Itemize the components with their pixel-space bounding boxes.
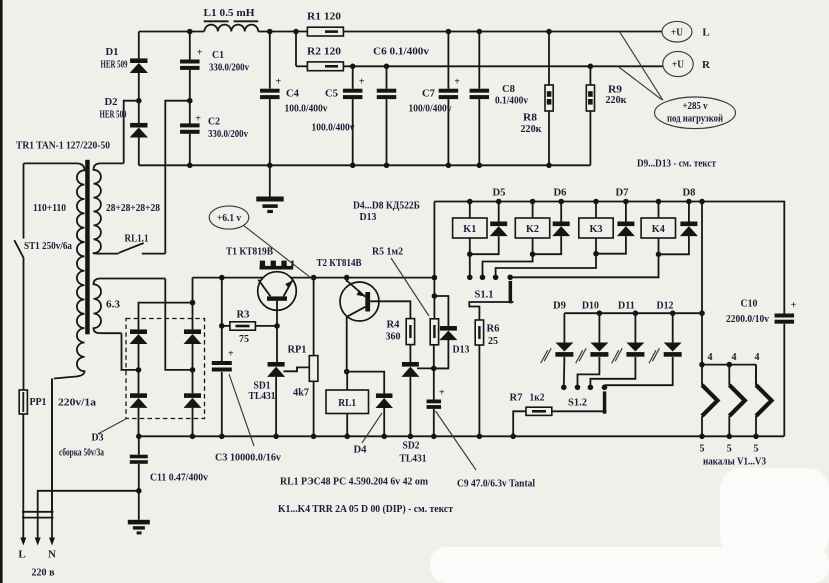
wire C2 to 0V rail <box>189 134 191 166</box>
svg-text:C8: C8 <box>502 83 515 95</box>
svg-text:L: L <box>702 27 709 39</box>
wire D9 return <box>563 357 566 387</box>
node C8 bottom <box>477 163 483 169</box>
wire LED anode bus <box>564 312 702 314</box>
node heater bus V2 <box>727 362 733 368</box>
svg-text:C3 10000.0/16v: C3 10000.0/16v <box>215 452 281 464</box>
node S1.2 contact3 <box>588 385 594 391</box>
svg-text:D4: D4 <box>354 444 367 456</box>
diode D6 <box>560 202 562 222</box>
switch S1.1 wiper <box>509 281 512 303</box>
svg-text:220к: 220к <box>606 94 628 106</box>
svg-text:+: + <box>439 388 445 399</box>
svg-text:HER 509: HER 509 <box>100 110 127 121</box>
node heater bus V1 <box>699 362 705 368</box>
svg-text:D8: D8 <box>683 187 696 199</box>
svg-text:D2: D2 <box>105 96 118 108</box>
svg-text:RP1: RP1 <box>288 344 307 356</box>
node LED bus right <box>699 310 705 316</box>
svg-text:D5: D5 <box>493 187 506 199</box>
node RL1 coil top <box>344 369 350 375</box>
diode D2 HER509 <box>130 123 147 128</box>
svg-text:сборка 50v/3a: сборка 50v/3a <box>59 447 104 459</box>
svg-text:220к: 220к <box>521 123 543 135</box>
wire D2 to 0V rail <box>138 138 140 166</box>
capacitor C5 100.0/400v <box>352 66 354 88</box>
resistor R3 75 <box>222 325 230 327</box>
svg-text:D13: D13 <box>360 211 377 223</box>
node ground tap <box>267 163 273 169</box>
node C4 top <box>267 29 273 35</box>
svg-text:HER 509: HER 509 <box>101 60 128 71</box>
svg-text:+6.1 v: +6.1 v <box>217 213 241 224</box>
node S1.1 contact2 <box>480 275 486 281</box>
node C1 top <box>187 29 193 35</box>
node C7 top <box>446 29 452 35</box>
node T2 emitter <box>344 275 350 281</box>
wire D11 return <box>590 357 635 387</box>
rectifier D3 dashed box <box>126 319 205 419</box>
svg-text:K4: K4 <box>652 223 665 235</box>
wire K3 return <box>595 238 597 254</box>
svg-text:R6: R6 <box>487 323 500 335</box>
svg-text:D12: D12 <box>657 300 674 312</box>
svg-text:R7: R7 <box>510 392 523 404</box>
wire D12 return <box>605 357 673 385</box>
node rail SD2 bottom <box>408 434 414 440</box>
svg-text:330.0/200v: 330.0/200v <box>209 63 249 74</box>
svg-text:C4: C4 <box>286 88 299 100</box>
node rail SD1 bottom <box>273 434 279 440</box>
capacitor C8 0.1/400v <box>478 32 480 89</box>
node bus D5 <box>496 199 502 205</box>
svg-text:+: + <box>228 349 234 360</box>
LED D10 <box>598 313 600 342</box>
node bus D8 <box>686 199 692 205</box>
node rail R6 bottom <box>477 434 483 440</box>
wire SD1 ref to RP1 wiper <box>284 367 310 371</box>
relay coil RL1 <box>346 372 348 390</box>
wire heater bus <box>702 364 756 366</box>
diode D13 <box>434 296 448 326</box>
node C6 bottom <box>384 163 390 169</box>
heater V2 <box>728 365 730 385</box>
svg-text:C10: C10 <box>741 298 758 310</box>
wire top +rail to L output <box>139 31 205 33</box>
svg-text:R5 1м2: R5 1м2 <box>372 246 403 258</box>
svg-text:D9...D13 - см. текст: D9...D13 - см. текст <box>637 158 716 170</box>
node bus K4 <box>656 199 662 205</box>
wire R2 rail (R channel) <box>295 32 297 67</box>
svg-text:220 в: 220 в <box>32 567 55 579</box>
capacitor C11 0.47/400v <box>138 436 140 454</box>
svg-text:4: 4 <box>755 352 760 363</box>
diode D3b <box>130 393 147 398</box>
heatsink T1 <box>260 266 294 270</box>
svg-text:100/0/400v: 100/0/400v <box>409 104 452 115</box>
capacitor C4 100.0/400v <box>269 32 271 89</box>
diode D5 <box>498 202 500 222</box>
svg-text:TL431: TL431 <box>400 453 427 465</box>
node R8 top <box>546 29 552 35</box>
svg-text:RL1 РЭС48 РС 4.590.204 6: RL1 РЭС48 РС 4.590.204 6v 42 om <box>280 476 428 488</box>
svg-text:L: L <box>18 549 25 561</box>
svg-text:PP1: PP1 <box>30 396 47 408</box>
svg-text:RL1.1: RL1.1 <box>125 233 149 245</box>
svg-text:28+28+28+28: 28+28+28+28 <box>106 202 160 214</box>
svg-text:D9: D9 <box>553 300 566 312</box>
winding secondary 6.3 <box>94 279 166 334</box>
svg-text:T2 КТ814В: T2 КТ814В <box>317 257 363 269</box>
svg-text:R2 120: R2 120 <box>307 46 342 58</box>
wire T1 base <box>276 301 278 362</box>
node riser D13 tap <box>432 293 438 299</box>
winding primary 110+110 <box>24 163 85 378</box>
svg-text:D3: D3 <box>92 432 104 444</box>
node rail R7 return <box>510 434 516 440</box>
svg-text:D13: D13 <box>453 344 470 356</box>
node R9 top <box>588 64 594 70</box>
svg-text:100.0/400v: 100.0/400v <box>312 123 355 134</box>
transistor T1 KT819V <box>258 272 297 311</box>
svg-text:S1.1: S1.1 <box>475 289 494 301</box>
wire +6.1 riser to relay bus <box>433 202 435 319</box>
diode D3c <box>184 329 201 334</box>
svg-text:4: 4 <box>732 352 737 363</box>
svg-text:K3: K3 <box>590 223 603 235</box>
svg-text:R: R <box>702 59 711 71</box>
node chassis junction <box>138 464 140 520</box>
svg-text:TL431: TL431 <box>249 390 276 402</box>
resistor R7 1k2 <box>526 407 552 415</box>
node bus D7 <box>623 199 629 205</box>
svg-text:+U: +U <box>671 27 683 38</box>
svg-text:K1: K1 <box>463 223 476 235</box>
mains arrow earth <box>35 538 41 546</box>
wire fuse to plug L <box>22 414 24 538</box>
svg-text:ST1 250v/6a: ST1 250v/6a <box>24 240 72 252</box>
node C8 top <box>477 29 483 35</box>
relay K2 <box>532 202 534 219</box>
wire raw +rail and +6.1 rail <box>193 277 435 279</box>
wire earth to chassis <box>38 491 139 538</box>
svg-text:K2: K2 <box>526 223 539 235</box>
diode D7 <box>625 202 627 222</box>
capacitor C7 100/0/400v <box>447 32 449 89</box>
node rail heater V3 <box>753 434 759 440</box>
node rail heater V1 <box>699 434 705 440</box>
node bridge plus <box>190 300 196 306</box>
svg-text:220v/1a: 220v/1a <box>58 397 97 409</box>
svg-text:D7: D7 <box>616 187 629 199</box>
wire N from primary <box>51 379 53 539</box>
node bus D11 <box>633 310 639 316</box>
wire 0V top rail <box>139 164 591 166</box>
node bus K2 <box>530 199 536 205</box>
svg-text:R1 120: R1 120 <box>307 11 342 23</box>
svg-text:C5: C5 <box>325 88 338 100</box>
svg-text:D1: D1 <box>106 46 119 58</box>
node bridge right mid <box>192 344 194 394</box>
capacitor C1 330.0/200v <box>189 32 191 60</box>
winding secondary 28+28+28+28 <box>94 163 124 253</box>
diode D3a <box>130 329 147 334</box>
LED D9 <box>563 313 565 342</box>
svg-text:100.0/400v: 100.0/400v <box>285 104 328 115</box>
diode D3d <box>184 393 201 398</box>
wire 6.3 top to bridge right midpoint <box>165 279 192 370</box>
resistor R6 25 <box>475 320 483 345</box>
wire heater bus corner V3 <box>755 365 757 385</box>
node rail C11 top <box>136 434 142 440</box>
LED D12 <box>672 313 674 342</box>
diode D8 <box>688 202 690 222</box>
node bus D10 <box>597 310 603 316</box>
callout C3 <box>229 374 254 446</box>
svg-text:+: + <box>791 300 797 311</box>
wire D10 return <box>578 357 600 387</box>
output +U R <box>663 51 693 76</box>
node bus D6 <box>558 199 564 205</box>
resistor R9 220k <box>589 66 591 85</box>
svg-text:4: 4 <box>708 352 713 363</box>
heater V1 <box>701 365 703 385</box>
svg-text:R3: R3 <box>237 309 250 321</box>
node bus D12 <box>670 310 676 316</box>
svg-text:C1: C1 <box>212 49 224 61</box>
svg-text:C7: C7 <box>422 88 435 100</box>
svg-text:360: 360 <box>386 331 401 343</box>
relay contact RL1.1 <box>119 243 144 253</box>
svg-text:R8: R8 <box>523 112 538 124</box>
capacitor C2 330.0/200v <box>180 123 200 127</box>
svg-text:+U: +U <box>672 60 684 71</box>
svg-text:+: + <box>195 114 201 125</box>
wire SD2 ref node <box>417 367 434 369</box>
svg-text:T1 КТ819В: T1 КТ819В <box>226 246 274 258</box>
resistor R4 360 <box>406 319 414 345</box>
svg-text:+: + <box>359 77 365 88</box>
shunt regulator SD1 TL431 <box>268 362 285 367</box>
wire +6.1 riser to LED bus and heaters <box>701 202 703 365</box>
node C2 bottom <box>187 163 193 169</box>
svg-text:R4: R4 <box>387 319 400 331</box>
svg-text:L1 0.5 mH: L1 0.5 mH <box>204 7 255 19</box>
node rail RP1 bottom <box>311 434 317 440</box>
node bus K1 <box>467 199 473 205</box>
svg-text:+: + <box>197 48 203 59</box>
wire main 0V rail <box>139 435 785 437</box>
wire raw vertical <box>221 278 223 361</box>
resistor R1 <box>307 27 343 36</box>
svg-text:5: 5 <box>727 444 732 455</box>
svg-text:D6: D6 <box>554 187 567 199</box>
svg-text:K1...K4 TRR 2A 05 D 00 (DI: K1...K4 TRR 2A 05 D 00 (DIP) - см. текст <box>278 503 454 515</box>
ground symbol top <box>269 165 271 196</box>
wire coil node to D4 <box>347 372 385 394</box>
wire D-junction to secondary top <box>124 101 139 164</box>
svg-text:25: 25 <box>488 335 498 347</box>
node rail C3 bottom <box>219 434 225 440</box>
node bridge left mid <box>138 344 140 394</box>
capacitor C10 2200.0/10v <box>775 314 795 318</box>
svg-text:4k7: 4k7 <box>293 387 309 399</box>
svg-text:2200.0/10v: 2200.0/10v <box>726 314 769 325</box>
wire K4 return <box>658 238 660 254</box>
resistor R2 <box>307 62 343 71</box>
callout +6.1v <box>209 206 249 229</box>
svg-text:+: + <box>454 77 460 88</box>
svg-text:D4...D8 КД522Б: D4...D8 КД522Б <box>353 200 420 212</box>
svg-text:C2: C2 <box>208 116 220 128</box>
callout D4 <box>362 413 382 443</box>
fuse PP1 220v/1a <box>19 390 27 414</box>
potentiometer RP1 4k7 <box>313 278 315 356</box>
mains arrow L <box>20 538 26 546</box>
wire K2 return <box>532 238 534 254</box>
shunt regulator SD2 TL431 <box>402 362 419 367</box>
node R2 tap <box>293 29 299 35</box>
node rail D4 bottom <box>381 434 387 440</box>
relay K4 <box>658 202 660 219</box>
svg-text:C6 0.1/400v: C6 0.1/400v <box>373 46 430 58</box>
wire T2 base to R4 <box>370 301 410 318</box>
relay K3 <box>595 202 597 219</box>
svg-text:C11 0.47/400v: C11 0.47/400v <box>150 472 208 484</box>
heater V3 <box>755 365 757 385</box>
node riser rail <box>432 275 438 281</box>
node R3 left <box>219 323 225 329</box>
svg-text:1к2: 1к2 <box>530 392 545 404</box>
wire S1.2 wiper to R7 <box>552 410 607 412</box>
svg-text:+: + <box>276 77 282 88</box>
resistor R8 220k <box>548 32 550 86</box>
node S1.2 contact1 <box>561 385 567 391</box>
wire T2 collector to RL1 <box>346 317 348 372</box>
svg-text:5: 5 <box>700 444 705 455</box>
svg-text:+285 v: +285 v <box>683 101 708 112</box>
node C5 bottom <box>350 163 356 169</box>
node S1.1 contact1 <box>467 275 473 281</box>
svg-text:110+110: 110+110 <box>33 202 66 214</box>
svg-text:RL1: RL1 <box>338 397 356 409</box>
svg-text:TR1 TAN-1 127/220-50: TR1 TAN-1 127/220-50 <box>16 140 110 152</box>
callout C9 <box>436 411 477 470</box>
wire bridge plus riser to raw rail <box>192 278 194 303</box>
callout R5 <box>391 258 429 316</box>
wire R9 bottom riser <box>589 111 591 165</box>
capacitor C9 47.0/6.3v <box>433 368 435 399</box>
node R8 bottom <box>546 163 552 169</box>
node raw rail C3 tap <box>219 275 225 281</box>
transformer core <box>85 160 90 334</box>
svg-text:под нагрузкой: под нагрузкой <box>667 114 723 125</box>
inductor L1 <box>204 25 258 32</box>
node S1.1 contact4 <box>507 275 513 281</box>
node ref R5 bottom <box>431 366 437 372</box>
svg-text:S1.2: S1.2 <box>568 397 587 409</box>
svg-text:5: 5 <box>754 444 759 455</box>
switch S1.2 wiper <box>603 391 607 413</box>
wire K1 return <box>469 238 471 277</box>
svg-text:накалы V1...V3: накалы V1...V3 <box>703 456 766 468</box>
svg-text:N: N <box>48 549 56 561</box>
node rail heater V2 <box>727 434 733 440</box>
node bus K3 <box>593 199 599 205</box>
wire left page border <box>0 0 3 583</box>
resistor R5 1m2 <box>430 319 438 345</box>
node S1.2 contact2 <box>575 385 581 391</box>
node rail RL1 bottom <box>344 434 350 440</box>
node S1.2 contact4 <box>602 385 608 391</box>
node bus LED riser <box>699 199 705 205</box>
svg-text:6.3: 6.3 <box>106 299 121 311</box>
callout +285v under load <box>620 32 663 100</box>
svg-text:75: 75 <box>239 333 249 345</box>
mains plug symbol <box>22 511 54 513</box>
svg-text:D10: D10 <box>582 300 599 312</box>
capacitor C6 0.1/400v <box>386 66 388 88</box>
wire relay +6.1 bus <box>434 202 784 314</box>
wire 6.3 bottom to bridge left midpoint <box>122 333 139 370</box>
node S1.1 contact3 <box>493 275 499 281</box>
node C7 bottom <box>446 163 452 169</box>
svg-text:330.0/200v: 330.0/200v <box>208 129 248 140</box>
node D1-D2 junction <box>138 73 140 123</box>
node C1-C2 junction <box>189 70 191 123</box>
wire S1.1 wiper to R6 <box>469 302 513 320</box>
svg-text:SD2: SD2 <box>403 440 420 452</box>
ground symbol chassis <box>128 520 150 525</box>
wire switch to fuse <box>23 258 25 390</box>
svg-text:D11: D11 <box>618 300 635 312</box>
node rail C9 bottom <box>431 434 437 440</box>
mains arrow N <box>49 538 55 546</box>
svg-text:C9 47.0/6.3v Tantal: C9 47.0/6.3v Tantal <box>457 478 535 490</box>
switch ST1 <box>23 163 25 238</box>
wire C-junction to RL1.1 contact <box>165 101 190 254</box>
wire bridge plus bus <box>139 303 193 330</box>
output +U L <box>662 21 692 42</box>
callout D3 <box>98 419 126 434</box>
svg-text:0.1/400v: 0.1/400v <box>495 96 528 107</box>
diode D1 HER509 <box>138 32 140 59</box>
capacitor C3 10000.0/16v <box>212 361 232 365</box>
relay K1 <box>469 202 471 219</box>
LED D11 <box>634 313 636 342</box>
wire primary bottom to N <box>51 379 53 512</box>
diode D4 <box>376 393 393 398</box>
node rail bridge right <box>190 434 196 440</box>
